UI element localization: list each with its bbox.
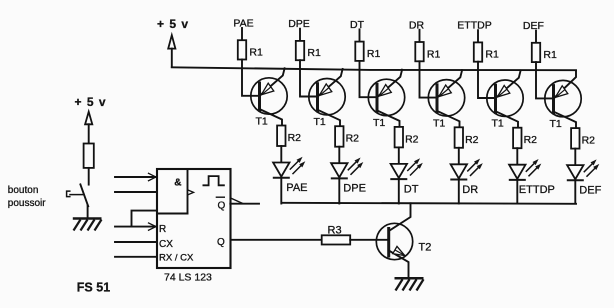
wire R2 to LED (PAE)	[280, 146, 282, 163]
svg-text:ETTDP: ETTDP	[457, 20, 491, 32]
resistor R1 (DR column)	[415, 42, 440, 61]
wire R1 to base of T1 (ETTDP)	[478, 62, 495, 98]
svg-text:FS 51: FS 51	[77, 281, 110, 295]
resistor R2 (ETTDP column)	[513, 128, 537, 149]
wire R2 to LED (DR)	[458, 148, 460, 165]
svg-text:DR: DR	[462, 184, 478, 196]
wire Q output to R3	[231, 239, 322, 241]
wire LED ETTDP cathode to common bus	[516, 180, 518, 204]
resistor R1 (DT column)	[355, 42, 380, 61]
node DT (input signal)	[350, 19, 365, 42]
svg-text:R3: R3	[328, 225, 342, 237]
resistor R1 (DEF column)	[532, 43, 557, 62]
transistor T1 (DPE column, PNP)	[309, 69, 345, 128]
wire LED DEF cathode to common bus	[574, 180, 576, 203]
svg-text:RX / CX: RX / CX	[159, 252, 194, 263]
wire input B (to & gate)	[115, 191, 157, 193]
wire bus to collector of T2	[389, 203, 411, 231]
svg-text:T1: T1	[433, 117, 445, 129]
resistor R1 (DPE column)	[296, 41, 321, 60]
wire R1 to base of T1 (DR)	[420, 61, 437, 97]
svg-text:DEF: DEF	[523, 20, 544, 32]
wire R2 to LED (DT)	[398, 147, 400, 164]
svg-text:R1: R1	[367, 48, 381, 60]
svg-text:R2: R2	[465, 134, 479, 146]
ground (below push-button)	[73, 219, 102, 231]
svg-text:R1: R1	[307, 47, 321, 59]
resistor R1 (ETTDP column)	[474, 42, 499, 61]
label bouton poussoir	[8, 185, 46, 209]
node ETTDP (input signal)	[457, 20, 491, 43]
svg-text:poussoir: poussoir	[8, 198, 46, 209]
svg-text:DPE: DPE	[288, 18, 310, 30]
transistor T1 (DT column, PNP)	[368, 70, 404, 129]
node DPE (input signal)	[288, 18, 310, 41]
svg-text:bouton: bouton	[8, 185, 39, 196]
wire LED DT cathode to common bus	[398, 179, 400, 203]
svg-text:Q: Q	[217, 237, 225, 248]
svg-text:T1: T1	[492, 118, 504, 130]
LED DPE	[331, 158, 366, 195]
resistor R2 (DT column)	[395, 127, 419, 147]
svg-text:PAE: PAE	[286, 182, 307, 194]
node DEF (input signal)	[523, 20, 544, 43]
wire input A (to & gate)	[115, 173, 156, 180]
svg-text:DT: DT	[350, 19, 365, 31]
svg-text:Q: Q	[218, 201, 226, 212]
wire LED PAE cathode to common bus	[280, 178, 282, 204]
resistor R1 (PAE column)	[238, 40, 263, 59]
transistor T1 (ETTDP column, PNP)	[487, 71, 523, 130]
transistor T1 (DEF column, PNP)	[545, 70, 581, 130]
svg-text:DT: DT	[404, 183, 419, 195]
wire common LED cathode bus	[282, 203, 576, 204]
svg-text:R2: R2	[524, 134, 538, 146]
svg-text:R1: R1	[249, 47, 263, 59]
svg-text:DR: DR	[409, 19, 425, 31]
svg-text:DPE: DPE	[343, 183, 366, 195]
svg-text:R1: R1	[543, 49, 557, 61]
svg-text:CX: CX	[159, 239, 173, 250]
wire R1 to base of T1 (DEF)	[536, 62, 553, 98]
svg-text:&: &	[174, 177, 181, 188]
wire +5V rail	[172, 67, 576, 70]
wire R2 to LED (DPE)	[338, 147, 340, 164]
wire R3 to base of T2	[350, 239, 389, 241]
wire R1 to base of T1 (DT)	[360, 61, 377, 97]
svg-text:R2: R2	[582, 135, 596, 147]
transistor T1 (DR column, PNP)	[428, 70, 464, 129]
resistor R2 (DEF column)	[571, 128, 595, 149]
svg-text:74 LS 123: 74 LS 123	[164, 272, 212, 284]
node DR (input signal)	[409, 19, 425, 42]
svg-text:R: R	[159, 224, 166, 235]
op-amp / IC U1 74 LS 123 monostable	[157, 169, 231, 284]
power +5V supply (push-button branch)	[75, 95, 107, 144]
LED DR	[450, 159, 483, 196]
svg-text:PAE: PAE	[233, 18, 253, 30]
resistor (pull-up, unlabelled)	[84, 144, 94, 168]
wire R2 to LED (ETTDP)	[516, 148, 518, 165]
svg-text:R2: R2	[288, 132, 302, 144]
wire R2 to LED (DEF)	[574, 149, 576, 166]
svg-text:R1: R1	[427, 48, 441, 60]
svg-text:T2: T2	[419, 242, 432, 254]
svg-text:ETTDP: ETTDP	[519, 184, 555, 196]
resistor R2 (DPE column)	[335, 126, 359, 147]
ground (below T2)	[395, 278, 424, 290]
resistor R2 (DR column)	[455, 127, 479, 148]
switch: bouton poussoir	[67, 184, 89, 217]
svg-text:DEF: DEF	[579, 185, 601, 197]
svg-text:R2: R2	[346, 133, 360, 145]
wire LED DPE cathode to common bus	[338, 178, 340, 203]
LED ETTDP	[509, 159, 555, 196]
LED DT	[390, 158, 423, 195]
wire LED DR cathode to common bus	[458, 180, 460, 204]
LED PAE	[273, 157, 308, 194]
svg-text:R1: R1	[485, 49, 499, 61]
transistor T2 (NPN)	[376, 223, 431, 277]
svg-text:+ 5 v: + 5 v	[157, 17, 189, 31]
resistor R2 (PAE column)	[277, 126, 301, 147]
wire resistor to switch	[88, 168, 90, 185]
wire input R with branch to & gate	[115, 211, 157, 231]
resistor R3	[322, 225, 351, 245]
LED DEF	[567, 159, 602, 196]
wire R1 to base of T1 (PAE)	[242, 60, 259, 96]
pin Q-bar output triangle and stub	[230, 198, 259, 204]
wire input RX/CX	[115, 256, 157, 258]
svg-text:R2: R2	[405, 133, 419, 145]
wire R1 to base of T1 (DPE)	[300, 60, 317, 96]
svg-text:+ 5 v: + 5 v	[75, 95, 107, 109]
transistor T1 (PAE column, PNP)	[251, 68, 287, 127]
wire input CX	[115, 241, 157, 243]
svg-text:T1: T1	[314, 116, 326, 128]
node PAE (input signal)	[233, 18, 253, 41]
svg-text:T1: T1	[373, 117, 385, 129]
power +5V supply (top)	[157, 17, 189, 67]
svg-text:T1: T1	[256, 116, 268, 128]
svg-text:T1: T1	[550, 118, 562, 130]
